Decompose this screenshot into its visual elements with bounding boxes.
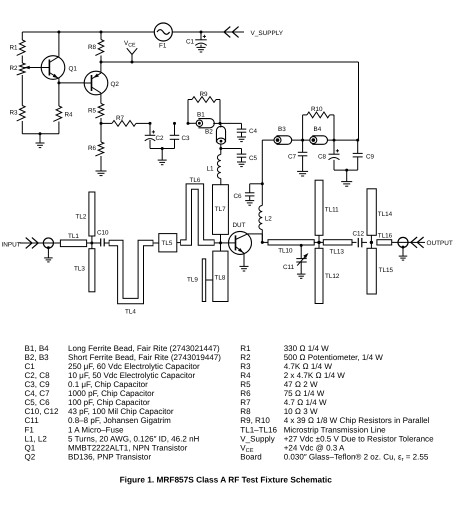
- node C8: [333, 139, 336, 142]
- transmission line TL10: [268, 240, 314, 245]
- svg-text:1000 pF, Chip Capacitor: 1000 pF, Chip Capacitor: [68, 389, 155, 398]
- svg-text:C3, C9: C3, C9: [25, 380, 51, 389]
- transmission line TL7: [213, 185, 229, 235]
- svg-text:TL4: TL4: [125, 309, 136, 316]
- svg-text:TL11: TL11: [325, 207, 339, 214]
- svg-text:10 Ω 3 W: 10 Ω 3 W: [284, 407, 318, 416]
- svg-text:TL12: TL12: [325, 273, 340, 280]
- node C1: [200, 31, 203, 34]
- resistor R8: [100, 32, 102, 40]
- connector output: [398, 237, 408, 247]
- ground bias network: [39, 134, 41, 143]
- svg-text:TL1: TL1: [68, 233, 79, 240]
- svg-text:C6: C6: [234, 193, 243, 200]
- wire Q1 emitter: [58, 78, 60, 83]
- svg-text:C4, C7: C4, C7: [25, 389, 51, 398]
- wire L2 feed from B3: [262, 139, 274, 141]
- node C9: [356, 139, 359, 142]
- svg-text:F1: F1: [159, 43, 167, 50]
- wire C2-C3 bottom: [150, 148, 175, 150]
- svg-text:75 Ω 1/4 W: 75 Ω 1/4 W: [284, 389, 325, 398]
- svg-text:Board: Board: [240, 452, 261, 461]
- wire R7 to C2 node: [136, 122, 150, 124]
- node C8/C9 ground: [345, 169, 348, 172]
- inductor L2: [261, 184, 263, 206]
- svg-text:R5: R5: [88, 108, 97, 115]
- svg-text:330 Ω 1/4 W: 330 Ω 1/4 W: [284, 344, 329, 353]
- svg-text:1 A Micro–Fuse: 1 A Micro–Fuse: [68, 425, 124, 434]
- svg-text:100 pF, Chip Capacitor: 100 pF, Chip Capacitor: [68, 398, 150, 407]
- node bias return: [39, 132, 42, 135]
- wire C8-C9 bottom: [334, 169, 358, 171]
- transistor Q1: [41, 56, 65, 80]
- svg-text:C11: C11: [283, 264, 295, 271]
- svg-text:4.7 Ω 1/4 W: 4.7 Ω 1/4 W: [284, 398, 327, 407]
- ground C2/C3: [161, 149, 163, 160]
- capacitor C8: [333, 140, 335, 154]
- svg-text:R9, R10: R9, R10: [240, 416, 270, 425]
- capacitor C1: [200, 32, 202, 40]
- svg-text:4.7K Ω 1/4 W: 4.7K Ω 1/4 W: [284, 362, 333, 371]
- wire TL1 to node: [87, 242, 101, 244]
- wire R5 to node: [100, 118, 102, 123]
- wire C12 to junction: [362, 241, 367, 243]
- node TL2/TL3/C10: [90, 242, 93, 245]
- wire TL9 to TL8: [206, 279, 213, 281]
- svg-text:TL2: TL2: [76, 214, 87, 221]
- svg-text:L1: L1: [207, 166, 215, 173]
- svg-text:Q1: Q1: [69, 66, 78, 73]
- svg-text:Figure 1. MRF857S Class A RF T: Figure 1. MRF857S Class A RF Test Fixtur…: [120, 474, 333, 484]
- ground R6: [100, 156, 102, 171]
- ground DUT source: [243, 254, 245, 267]
- wire node to R7: [101, 122, 112, 124]
- node C7: [301, 139, 304, 142]
- svg-text:TL16: TL16: [378, 232, 393, 239]
- svg-text:TL8: TL8: [215, 275, 226, 282]
- svg-text:TL7: TL7: [215, 206, 226, 213]
- terminal VCE tap: [131, 55, 133, 63]
- svg-text:+24 Vdc @ 0.3 A: +24 Vdc @ 0.3 A: [284, 443, 345, 452]
- svg-text:47 Ω 2 W: 47 Ω 2 W: [284, 380, 318, 389]
- wire TL4 to TL5: [153, 242, 158, 244]
- transmission line TL16: [377, 240, 392, 245]
- svg-text:0.1 μF, Chip Capacitor: 0.1 μF, Chip Capacitor: [68, 380, 148, 389]
- capacitor C12: [352, 241, 357, 243]
- svg-text:R3: R3: [240, 362, 251, 371]
- transmission line TL14: [367, 189, 376, 236]
- svg-text:R8: R8: [240, 407, 251, 416]
- wire R8 to VCE node: [100, 56, 102, 63]
- svg-text:5 Turns, 20 AWG, 0.126″ ID, 46: 5 Turns, 20 AWG, 0.126″ ID, 46.2 nH: [68, 434, 200, 443]
- wire Q2 collector: [100, 93, 102, 103]
- ground input connector: [47, 248, 49, 258]
- svg-text:TL9: TL9: [187, 277, 198, 284]
- svg-text:C10: C10: [97, 230, 109, 237]
- svg-text:V_SUPPLY: V_SUPPLY: [251, 30, 284, 37]
- svg-text:C1: C1: [25, 362, 36, 371]
- svg-text:C4: C4: [249, 128, 258, 135]
- wire VCE vertical drop: [358, 62, 360, 140]
- svg-text:C5, C6: C5, C6: [25, 398, 51, 407]
- svg-text:Long Ferrite Bead, Fair Rite (: Long Ferrite Bead, Fair Rite (2743021447…: [68, 344, 220, 353]
- wire TL16 to output: [392, 241, 410, 243]
- svg-text:R8: R8: [88, 44, 97, 51]
- svg-text:250 μF, 60 Vdc Electrolytic Ca: 250 μF, 60 Vdc Electrolytic Capacitor: [68, 362, 200, 371]
- svg-text:L2: L2: [265, 216, 273, 223]
- ground C1: [200, 45, 202, 48]
- wire Q2 emitter: [100, 62, 102, 73]
- svg-text:Microstrip Transmission Line: Microstrip Transmission Line: [284, 425, 386, 434]
- svg-text:2 x 4.7K Ω 1/4 W: 2 x 4.7K Ω 1/4 W: [284, 371, 346, 380]
- svg-text:R9: R9: [200, 91, 209, 98]
- svg-text:R5: R5: [240, 380, 251, 389]
- transmission line TL15: [367, 248, 376, 294]
- svg-text:C5: C5: [249, 155, 258, 162]
- svg-text:L1, L2: L1, L2: [25, 434, 48, 443]
- svg-text:R10: R10: [311, 106, 323, 113]
- wire emitter node to R4: [58, 83, 60, 106]
- transmission line TL6: [180, 187, 214, 243]
- capacitor C6: [250, 183, 263, 185]
- svg-text:C12: C12: [353, 231, 365, 238]
- transistor Q2: [84, 71, 108, 95]
- wire left bias rail: [21, 32, 23, 40]
- node VCE tap: [131, 61, 134, 64]
- node C2/C3 ground: [161, 147, 164, 150]
- wire Q1 base to R2: [24, 67, 41, 69]
- wire VCE rail: [101, 61, 359, 63]
- wire R3 bottom: [21, 121, 23, 134]
- node DUT gate: [219, 241, 222, 244]
- wire C10 to TL4: [104, 242, 109, 244]
- svg-text:R4: R4: [240, 371, 251, 380]
- svg-text:TL15: TL15: [379, 267, 394, 274]
- svg-text:R2: R2: [10, 65, 19, 72]
- fuse F1: [154, 23, 172, 41]
- transmission line TL4: [109, 243, 154, 301]
- wire R1-R2: [21, 56, 23, 64]
- capacitor C7: [302, 140, 304, 152]
- svg-text:C11: C11: [25, 416, 40, 425]
- node DUT drain: [261, 241, 264, 244]
- capacitor C4: [220, 122, 242, 124]
- svg-text:B4: B4: [314, 126, 322, 133]
- resistor R6: [100, 123, 102, 142]
- svg-text:C2: C2: [156, 135, 165, 142]
- svg-text:0.030″ Glass–Teflon® 2 oz. Cu,: 0.030″ Glass–Teflon® 2 oz. Cu, εr = 2.55: [284, 452, 429, 463]
- wire B4 to C8/C9: [328, 139, 359, 141]
- svg-text:TL10: TL10: [278, 247, 293, 254]
- svg-text:C2, C8: C2, C8: [25, 371, 51, 380]
- node VCE: [100, 61, 103, 64]
- svg-text:TL1–TL16: TL1–TL16: [240, 425, 277, 434]
- svg-text:R2: R2: [240, 353, 251, 362]
- svg-text:C3: C3: [182, 135, 191, 142]
- svg-text:B2: B2: [205, 129, 213, 136]
- transmission line TL2: [89, 192, 95, 236]
- svg-text:F1: F1: [25, 425, 35, 434]
- terminal OUTPUT: [410, 241, 426, 243]
- transmission line TL11: [315, 180, 323, 235]
- node Q1 emitter: [57, 81, 60, 84]
- transmission line TL8: [213, 251, 228, 301]
- wire DUT drain: [248, 233, 263, 235]
- node TL junction 1: [318, 235, 320, 248]
- variable capacitor C11: [300, 245, 302, 258]
- svg-text:R7: R7: [240, 398, 251, 407]
- resistor R3: [17, 106, 25, 121]
- svg-text:DUT: DUT: [233, 222, 246, 229]
- svg-text:+27 Vdc ±0.5 V Due to Resistor: +27 Vdc ±0.5 V Due to Resistor Tolerance: [284, 434, 434, 443]
- potentiometer R2: [17, 63, 25, 75]
- svg-text:Q2: Q2: [25, 452, 36, 461]
- resistor R9: [187, 122, 190, 125]
- node C6 tap: [261, 182, 264, 185]
- node C2: [149, 122, 152, 125]
- svg-text:Q2: Q2: [111, 81, 120, 88]
- transmission line TL3: [89, 249, 95, 292]
- transmission line TL13: [323, 240, 352, 245]
- ferrite bead B4: [312, 136, 327, 145]
- wire R4 bottom: [58, 122, 60, 134]
- svg-text:TL13: TL13: [330, 248, 345, 255]
- svg-text:R3: R3: [10, 110, 19, 117]
- svg-text:C1: C1: [186, 39, 195, 46]
- svg-text:V_Supply: V_Supply: [240, 434, 274, 443]
- resistor R10: [302, 115, 304, 140]
- capacitor C9: [357, 140, 359, 153]
- svg-text:B3: B3: [278, 126, 286, 133]
- node B2 top: [219, 122, 222, 125]
- capacitor C5: [221, 148, 242, 150]
- svg-text:R1: R1: [240, 344, 251, 353]
- svg-text:TL5: TL5: [162, 240, 173, 247]
- transmission line TL12: [315, 248, 323, 303]
- wire TL7 to gate node: [220, 234, 222, 243]
- svg-text:C9: C9: [366, 154, 375, 161]
- ground output connector: [402, 247, 404, 256]
- svg-text:B1: B1: [197, 112, 205, 119]
- svg-text:C8: C8: [318, 154, 327, 161]
- svg-text:MMBT2222ALT1, NPN Transistor: MMBT2222ALT1, NPN Transistor: [68, 443, 188, 452]
- node R5/R6/R7: [100, 122, 103, 125]
- connector input: [43, 238, 53, 248]
- terminal V_SUPPLY: [224, 31, 244, 33]
- svg-text:TL6: TL6: [190, 177, 201, 184]
- svg-text:B2, B3: B2, B3: [25, 353, 50, 362]
- transistor DUT: [221, 242, 229, 244]
- capacitor C10: [100, 238, 102, 246]
- wire Q1 collector: [58, 32, 60, 57]
- transmission line TL5: [159, 234, 177, 252]
- svg-text:TL3: TL3: [74, 266, 85, 273]
- svg-text:R7: R7: [116, 115, 125, 122]
- wire top supply rail: [22, 31, 224, 33]
- svg-text:R6: R6: [88, 145, 97, 152]
- svg-text:OUTPUT: OUTPUT: [427, 240, 453, 247]
- node Q1 collector rail: [57, 31, 60, 34]
- svg-text:Q1: Q1: [25, 443, 36, 452]
- svg-text:0.8–8 pF, Johansen Gigatrim: 0.8–8 pF, Johansen Gigatrim: [68, 416, 171, 425]
- node below B2: [220, 144, 222, 148]
- svg-text:R6: R6: [240, 389, 251, 398]
- wire bottom bias return: [22, 133, 59, 135]
- capacitor C2: [149, 123, 151, 135]
- ferrite bead B1: [188, 122, 196, 124]
- resistor R1: [17, 40, 25, 55]
- ground C8/C9: [346, 170, 348, 181]
- node C11 tap: [300, 244, 303, 247]
- svg-text:C7: C7: [288, 154, 297, 161]
- resistor R5: [95, 104, 103, 119]
- resistor R7: [112, 121, 136, 127]
- ferrite bead B2: [220, 123, 222, 127]
- svg-text:10 μF, 50 Vdc Electrolytic Cap: 10 μF, 50 Vdc Electrolytic Capacitor: [68, 371, 196, 380]
- svg-text:43 pF, 100 Mil Chip Capacitor: 43 pF, 100 Mil Chip Capacitor: [68, 407, 174, 416]
- wire drain to TL10: [262, 241, 268, 243]
- svg-text:4 x 39 Ω 1/8 W Chip Resistors: 4 x 39 Ω 1/8 W Chip Resistors in Paralle…: [284, 416, 430, 425]
- svg-text:INPUT: INPUT: [2, 241, 21, 248]
- svg-text:R4: R4: [65, 112, 74, 119]
- resistor R4: [53, 106, 61, 121]
- inductor L1: [220, 149, 222, 155]
- wire TL5 to TL6: [177, 242, 180, 244]
- ferrite bead B3: [277, 136, 292, 145]
- wire R2-R3: [21, 75, 23, 106]
- svg-text:Short Ferrite Bead, Fair Rite: Short Ferrite Bead, Fair Rite (274301944…: [68, 353, 221, 362]
- svg-text:BD136, PNP Transistor: BD136, PNP Transistor: [68, 452, 151, 461]
- svg-text:500 Ω Potentiometer, 1/4 W: 500 Ω Potentiometer, 1/4 W: [284, 353, 384, 362]
- wire Q1 emitter to Q2 base: [59, 82, 84, 84]
- svg-text:B1, B4: B1, B4: [25, 344, 50, 353]
- node C3: [173, 122, 176, 125]
- svg-text:C10, C12: C10, C12: [25, 407, 60, 416]
- capacitor C3: [174, 123, 176, 135]
- svg-text:TL14: TL14: [378, 211, 393, 218]
- transmission line TL1: [60, 240, 86, 247]
- svg-text:R1: R1: [10, 45, 19, 52]
- node TL junction 2: [370, 235, 372, 248]
- wire B3-B4: [292, 139, 310, 141]
- wire TL6 to gate node: [215, 242, 221, 244]
- transmission line TL9: [202, 259, 205, 302]
